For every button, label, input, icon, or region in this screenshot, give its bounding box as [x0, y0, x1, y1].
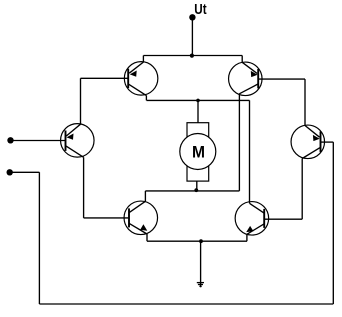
transistor Q3 emitter slant	[129, 223, 147, 234]
wire Q3 emitter lead to ground rail	[146, 234, 148, 241]
transistor Q1 emitter arrow (PNP)	[130, 71, 137, 77]
wire Q6 collector drop to Q4 base	[301, 159, 303, 220]
wire riser to Q6 base	[332, 142, 334, 304]
transistor Q5 collector slant	[66, 146, 84, 158]
transistor Q4 collector slant	[250, 203, 265, 213]
transistor Q5 emitter slant	[66, 124, 80, 136]
wire Q1 base from left driver	[81, 77, 129, 79]
junction dot top rail / Ut	[190, 54, 194, 58]
input terminal dot 1	[7, 137, 13, 143]
transistor Q5 left driver PNP body	[61, 124, 95, 158]
transistor Q3 base bar	[128, 208, 130, 227]
ground symbol bar 3	[199, 285, 201, 287]
transistor Q6 collector slant	[302, 147, 320, 158]
transistor Q2 top-right PNP body	[229, 62, 262, 96]
transistor Q2 emitter slant	[242, 62, 257, 73]
transistor Q6 base bar	[320, 132, 322, 153]
transistor Q4 emitter slant	[247, 224, 264, 235]
wire Q3 base from left driver	[84, 217, 129, 219]
motor frame rectangle	[187, 123, 209, 181]
wire Ut stem	[191, 17, 193, 55]
transistor Q2 collector slant	[239, 84, 258, 94]
wire Q2 emitter lead to top rail	[241, 56, 243, 63]
transistor Q1 base bar	[127, 69, 129, 88]
input terminal dot 2	[7, 169, 13, 175]
transistor Q3 emitter arrow (NPN)	[140, 224, 147, 230]
svg-text:M: M	[192, 143, 205, 162]
wire Q1 collector lead to node A	[145, 96, 147, 101]
wire node A horizontal (motor top)	[147, 99, 250, 101]
ground symbol bar 1	[197, 282, 204, 284]
wire Q1 emitter lead to top rail	[142, 56, 144, 63]
wire Q3 collector lead to node B	[144, 191, 146, 202]
wire ground rail	[147, 240, 247, 242]
transistor Q1 emitter slant	[129, 62, 143, 73]
junction dot ground rail	[199, 239, 203, 243]
transistor Q3 bottom-left NPN body	[124, 201, 158, 235]
motor M circle	[180, 134, 216, 170]
wire bottom route to right driver	[39, 303, 333, 305]
transistor Q6 emitter slant	[305, 126, 320, 138]
transistor Q4 base bar	[263, 209, 265, 228]
wire Q4 base to right driver	[264, 218, 302, 220]
wire Q2 collector drop to node B	[238, 94, 240, 191]
transistor Q1 top-left PNP body	[124, 62, 158, 96]
wire input 1 to Q5 base	[11, 140, 66, 142]
transistor Q4 bottom-right NPN body	[235, 202, 269, 236]
junction dot node A	[196, 99, 200, 103]
transistor Q5 base bar	[65, 131, 67, 151]
transistor Q5 emitter arrow (PNP)	[67, 134, 74, 140]
transistor Q6 right driver PNP body	[291, 125, 325, 159]
transistor Q3 collector slant	[129, 201, 145, 212]
junction dot node B	[194, 188, 198, 192]
wire input 2 horizontal	[10, 171, 40, 173]
transistor Q1 collector slant	[128, 84, 146, 96]
wire node B horizontal (motor bottom)	[145, 190, 239, 192]
wire Q5 collector drop to Q3 base	[83, 157, 85, 218]
wire Q2 base to right driver	[258, 78, 305, 80]
wire motor top lead	[197, 100, 199, 123]
transistor Q2 emitter arrow (PNP)	[251, 71, 258, 77]
wire input 2 drop	[38, 172, 40, 304]
wire top rail (emitters of top transistors)	[143, 55, 242, 57]
svg-text:Ut: Ut	[194, 2, 206, 18]
ground symbol bar 2	[198, 284, 203, 286]
transistor Q4 emitter arrow (NPN)	[246, 226, 253, 232]
transistor Q2 base bar	[257, 69, 259, 88]
supply terminal dot Ut	[189, 14, 195, 20]
wire node A drop to Q4 collector	[249, 100, 251, 203]
wire ground stem	[200, 241, 202, 287]
wire Q4 emitter lead to ground rail	[246, 234, 248, 241]
wire Q6 base stub	[321, 141, 334, 143]
wire Q5 emitter riser to Q1 base	[80, 78, 82, 124]
transistor Q6 emitter arrow (PNP)	[313, 135, 320, 141]
wire motor bottom lead	[196, 181, 198, 191]
